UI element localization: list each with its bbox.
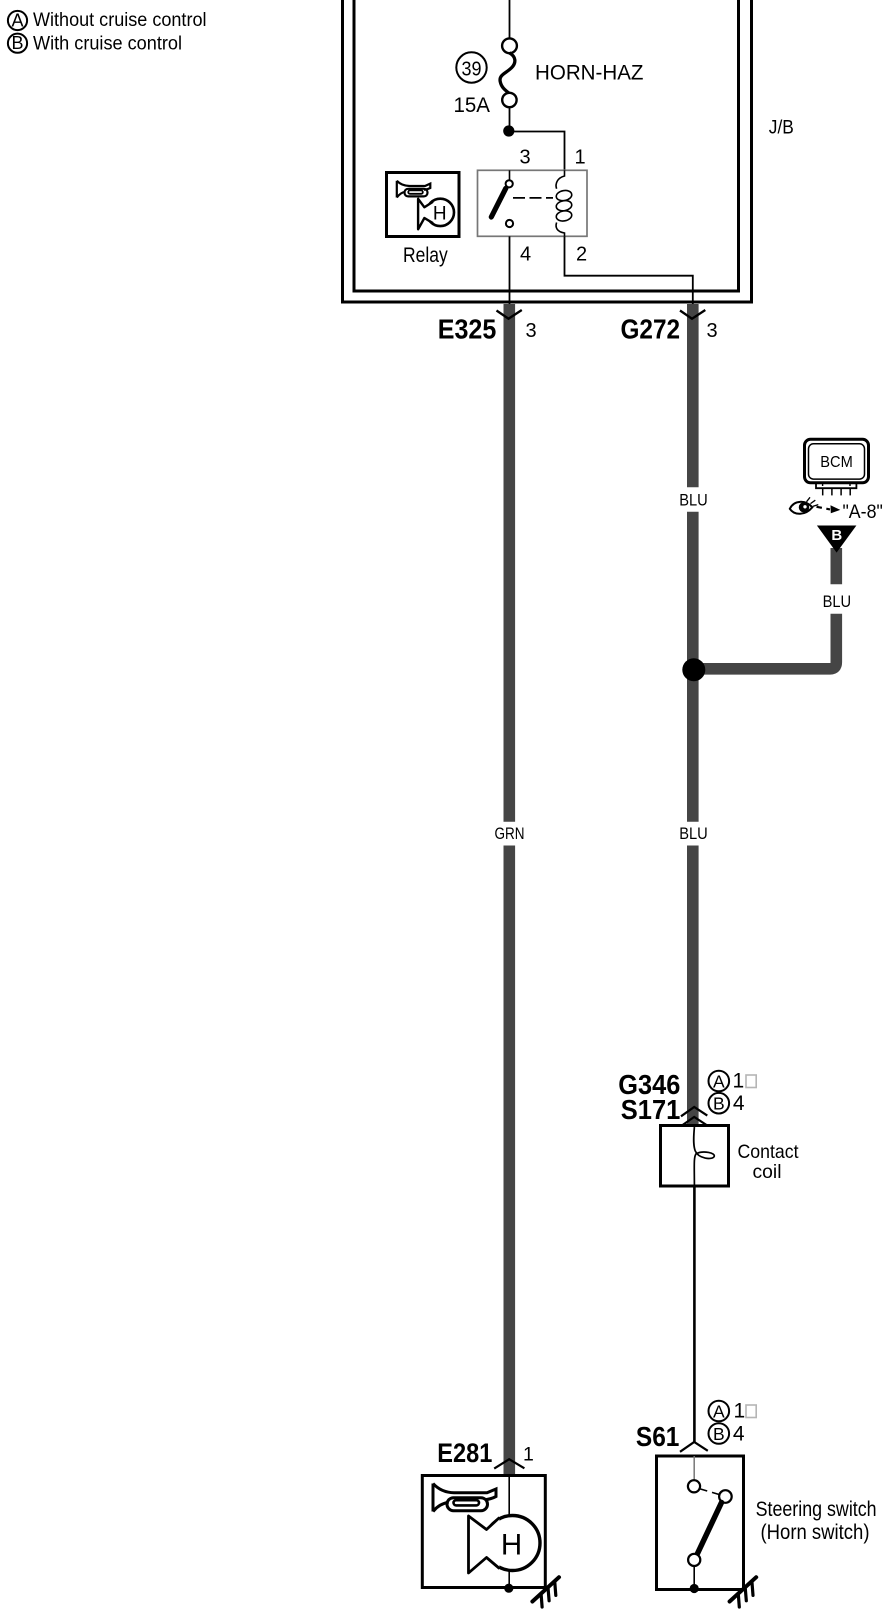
svg-text:3: 3	[520, 147, 531, 169]
svg-text:1: 1	[733, 1070, 745, 1093]
svg-text:BLU: BLU	[679, 490, 708, 509]
svg-text:3: 3	[526, 320, 537, 342]
svg-text:E281: E281	[437, 1438, 492, 1468]
svg-text:1: 1	[523, 1444, 534, 1466]
svg-text:A: A	[11, 10, 23, 30]
svg-text:A: A	[713, 1071, 725, 1091]
svg-text:B: B	[11, 33, 23, 53]
svg-text:2: 2	[576, 244, 587, 266]
svg-text:1: 1	[734, 1400, 746, 1423]
svg-text:HORN-HAZ: HORN-HAZ	[535, 61, 644, 85]
svg-text:S171: S171	[621, 1094, 681, 1125]
svg-text:1: 1	[574, 147, 585, 169]
svg-text:H: H	[433, 203, 447, 224]
svg-text:Without cruise control: Without cruise control	[33, 10, 207, 31]
svg-text:15A: 15A	[454, 94, 491, 117]
svg-text:S61: S61	[636, 1421, 680, 1452]
svg-text:"A-8": "A-8"	[843, 502, 883, 523]
svg-text:B: B	[713, 1424, 725, 1444]
svg-text:39: 39	[462, 57, 482, 80]
svg-text:B: B	[831, 527, 842, 544]
svg-text:Relay: Relay	[403, 244, 448, 267]
svg-text:GRN: GRN	[495, 824, 525, 843]
svg-text:BLU: BLU	[679, 824, 708, 843]
svg-text:coil: coil	[753, 1161, 782, 1183]
svg-text:3: 3	[707, 320, 718, 342]
svg-text:B: B	[713, 1094, 725, 1114]
svg-text:BCM: BCM	[820, 454, 853, 471]
svg-text:4: 4	[733, 1092, 745, 1115]
svg-text:Contact: Contact	[738, 1141, 800, 1163]
svg-text:Steering switch: Steering switch	[756, 1498, 877, 1521]
svg-text:J/B: J/B	[769, 118, 794, 139]
svg-text:H: H	[501, 1528, 522, 1561]
svg-text:BLU: BLU	[823, 592, 852, 611]
svg-text:G272: G272	[621, 313, 681, 344]
svg-text:E325: E325	[438, 313, 497, 344]
svg-text:(Horn switch): (Horn switch)	[761, 1521, 870, 1544]
svg-text:4: 4	[733, 1422, 745, 1445]
svg-text:A: A	[713, 1401, 725, 1421]
svg-text:4: 4	[520, 244, 531, 266]
svg-text:With cruise control: With cruise control	[33, 33, 182, 54]
